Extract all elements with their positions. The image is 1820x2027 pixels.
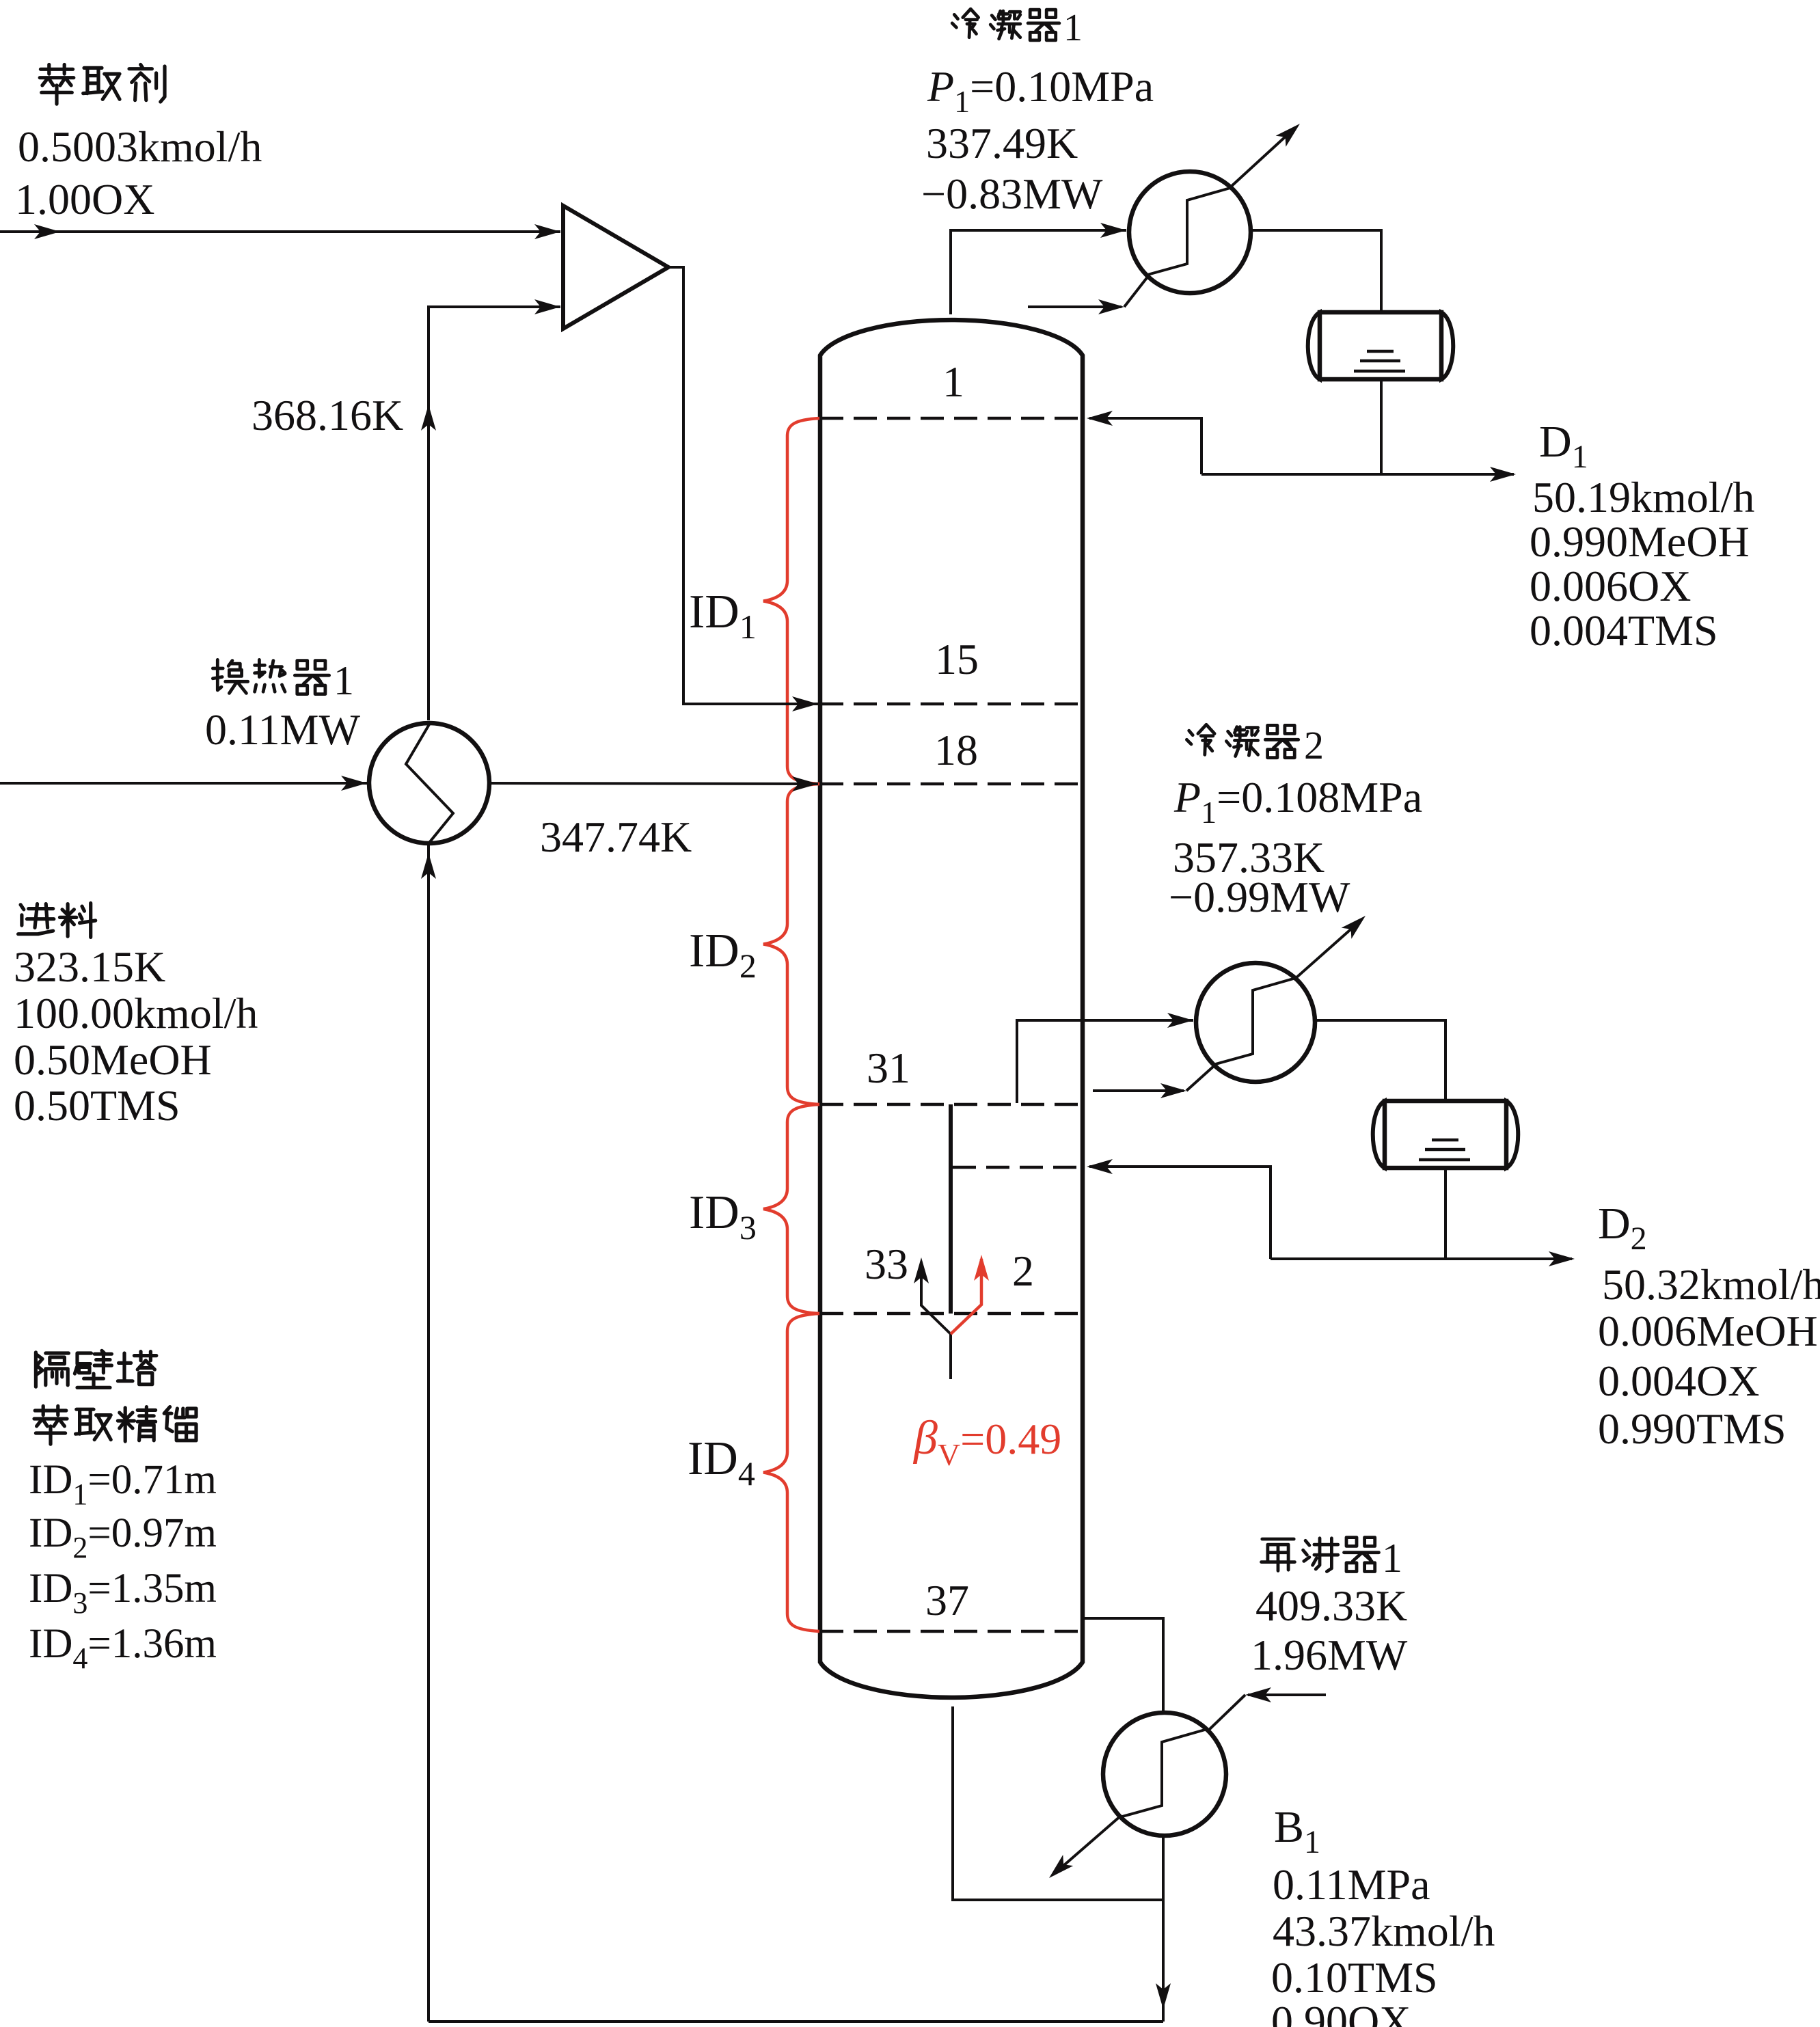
label: feed (jinliao) [18, 904, 54, 934]
stage 15 dashed line [820, 703, 1083, 706]
svg-text:0.990TMS: 0.990TMS [1598, 1404, 1787, 1453]
D1 product wire [1201, 473, 1514, 476]
reboiler internal zigzag [1122, 1730, 1205, 1817]
svg-text:0.50TMS: 0.50TMS [14, 1081, 180, 1130]
svg-text:1: 1 [334, 658, 354, 703]
condenser 1 coolant outlet arrow [1230, 127, 1296, 188]
vapor split black branch (left of wall) [921, 1262, 951, 1334]
stage 1 dashed line [820, 417, 1083, 420]
svg-text:1: 1 [1063, 7, 1083, 49]
svg-text:323.15K: 323.15K [14, 942, 165, 991]
condenser 2 coolant outlet arrow [1295, 920, 1361, 979]
drum 2 outlet wire [1444, 1169, 1447, 1259]
svg-text:0.004OX: 0.004OX [1598, 1357, 1759, 1405]
svg-text:0.90OX: 0.90OX [1271, 1997, 1411, 2027]
column bottoms wire to reboiler [953, 1706, 1163, 1900]
condenser 1 circle [1129, 172, 1251, 293]
mixer outlet wire to stage 15 [668, 267, 818, 704]
heat exchanger E1 circle [369, 723, 489, 843]
svg-text:0.006MeOH: 0.006MeOH [1598, 1307, 1818, 1355]
B1 bottoms wire down [1162, 1836, 1165, 2022]
svg-text:368.16K: 368.16K [252, 391, 403, 439]
stage 31 dashed line [820, 1103, 1083, 1106]
label: condenser 1 (lengningqi1) [952, 9, 978, 38]
svg-text:0.004TMS: 0.004TMS [1530, 606, 1718, 655]
svg-text:βV=0.49: βV=0.49 [912, 1412, 1061, 1472]
svg-text:37: 37 [925, 1576, 969, 1624]
svg-text:−0.83MW: −0.83MW [921, 169, 1103, 218]
ID1 brace (red) [763, 418, 819, 784]
drum 2 level marks [1432, 1139, 1458, 1142]
condenser 2 internal zigzag [1213, 978, 1296, 1065]
side vapor wire to condenser 2 [1017, 1020, 1193, 1103]
bottoms recycle wire along bottom [429, 2020, 1163, 2023]
stage 33 dashed line [820, 1312, 1083, 1316]
label: reboiler 1 (zaifeiqi1) [1262, 1539, 1295, 1570]
reflux drum 1 [1308, 312, 1454, 379]
svg-text:1.96MW: 1.96MW [1251, 1631, 1408, 1679]
D2 product wire [1271, 1257, 1572, 1260]
overhead vapor wire to condenser 1 [951, 230, 1126, 314]
extractant feed wire [0, 230, 560, 233]
reboiler steam inlet arrow [1248, 1693, 1326, 1696]
condenser 2 outlet wire to drum 2 [1315, 1020, 1445, 1099]
condenser 1 internal zigzag [1147, 188, 1230, 275]
reboiler B1 circle [1103, 1713, 1226, 1836]
svg-text:0.11MW: 0.11MW [205, 705, 361, 754]
reflux 1 wire to stage 1 [1089, 418, 1201, 474]
condenser 2 circle [1196, 963, 1315, 1082]
label: condenser 2 (lengningqi2) [1186, 724, 1214, 754]
svg-text:31: 31 [867, 1044, 910, 1092]
E1 internal zigzag [406, 724, 453, 843]
svg-text:0.006OX: 0.006OX [1530, 562, 1691, 610]
reboiler vapor return wire [1085, 1618, 1163, 1713]
label: extractant (cuiqvji) [40, 65, 74, 105]
label: dividing wall column (gebita) [36, 1352, 68, 1387]
svg-text:0.50MeOH: 0.50MeOH [14, 1035, 212, 1084]
svg-text:1: 1 [1382, 1536, 1402, 1581]
condenser 2 coolant inlet arrow [1093, 1089, 1184, 1092]
svg-text:347.74K: 347.74K [540, 813, 692, 861]
feed wire into E1 [0, 782, 369, 785]
svg-text:409.33K: 409.33K [1255, 1581, 1407, 1630]
vapor riser stem below stage 33 [949, 1334, 952, 1379]
svg-text:1.00OX: 1.00OX [15, 175, 154, 223]
stage 18 dashed line [820, 783, 1083, 786]
reflux drum 2 [1373, 1101, 1519, 1168]
svg-text:2: 2 [1012, 1247, 1034, 1295]
svg-text:0.10TMS: 0.10TMS [1271, 1953, 1438, 2002]
right-section reflux stage dashed line [953, 1166, 1083, 1169]
svg-text:33: 33 [865, 1240, 908, 1288]
svg-text:2: 2 [1304, 723, 1324, 767]
ID4 brace (red) [763, 1314, 819, 1631]
stage 37 dashed line [820, 1630, 1083, 1633]
column C1 (dividing wall column) shell [820, 320, 1083, 1698]
condenser 1 coolant inlet arrow [1028, 305, 1122, 308]
label: heat exchanger 1 (huanreqi1) [213, 659, 247, 693]
drum 1 level marks [1367, 350, 1394, 353]
drum 1 outlet wire [1380, 380, 1383, 474]
ID2 brace (red) [763, 784, 819, 1104]
reboiler steam outlet arrow [1053, 1815, 1122, 1875]
condenser 1 outlet wire to drum 1 [1251, 230, 1381, 310]
ID3 brace (red) [763, 1104, 819, 1314]
svg-text:−0.99MW: −0.99MW [1169, 873, 1350, 921]
svg-text:50.19kmol/h: 50.19kmol/h [1532, 473, 1754, 521]
svg-text:18: 18 [934, 726, 978, 774]
svg-text:0.11MPa: 0.11MPa [1273, 1860, 1430, 1909]
mixer (solvent + recycle) triangle [563, 206, 668, 329]
recycle wire into E1 bottom [427, 843, 430, 2022]
svg-text:337.49K: 337.49K [926, 119, 1078, 167]
svg-text:100.00kmol/h: 100.00kmol/h [14, 989, 258, 1037]
svg-text:50.32kmol/h: 50.32kmol/h [1602, 1260, 1820, 1309]
svg-text:0.990MeOH: 0.990MeOH [1530, 517, 1750, 566]
svg-text:43.37kmol/h: 43.37kmol/h [1273, 1907, 1495, 1955]
dividing wall [949, 1104, 953, 1314]
svg-text:15: 15 [935, 635, 979, 683]
label: extractive distillation (cuiqujingliu) [34, 1406, 67, 1444]
svg-text:0.5003kmol/h: 0.5003kmol/h [18, 122, 262, 171]
svg-text:1: 1 [942, 357, 964, 406]
feed wire E1 to stage 18 [489, 783, 818, 784]
vapor split red branch (right of wall) [951, 1259, 981, 1334]
reflux 2 wire to right section [1089, 1167, 1271, 1259]
recycle wire into mixer [429, 307, 560, 720]
